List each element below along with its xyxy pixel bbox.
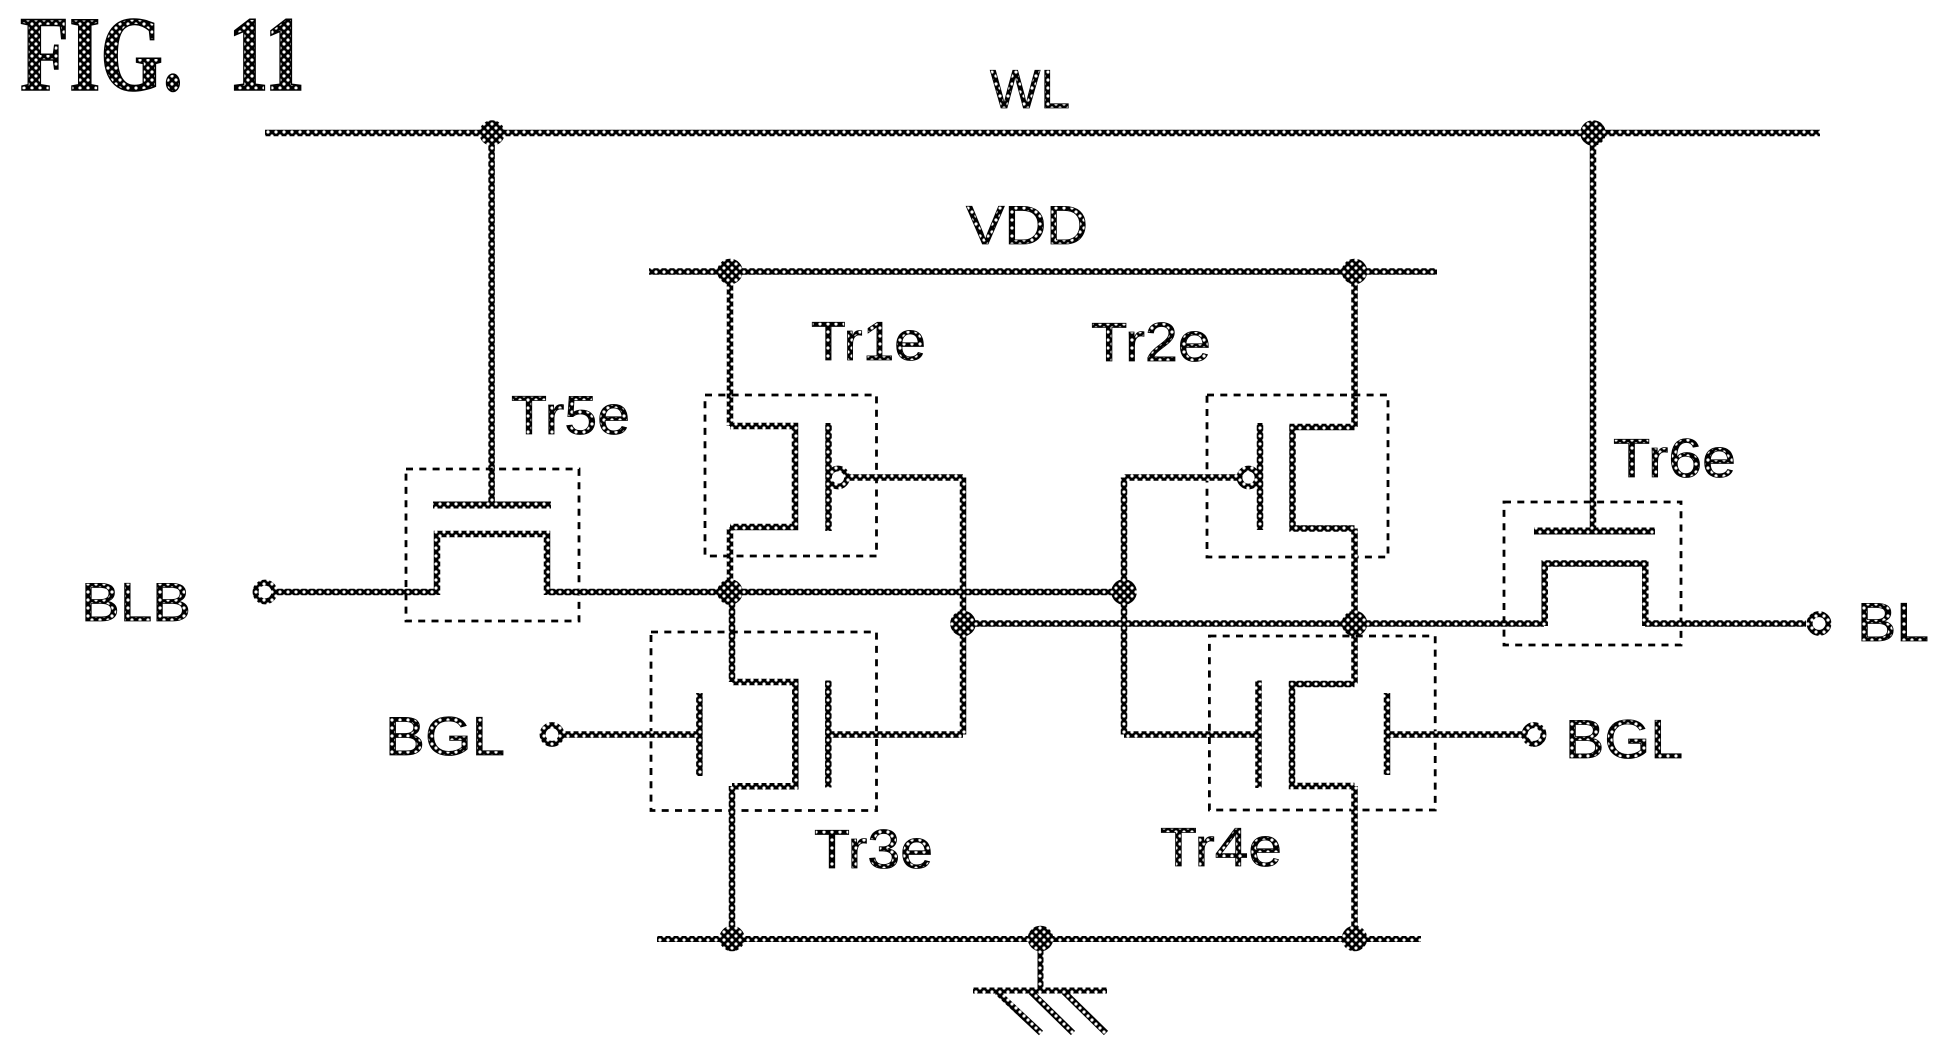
wire Tr4e source to VSS	[1351, 786, 1358, 939]
wire WL to Tr5e gate	[488, 133, 495, 505]
transistor Tr2e	[1207, 395, 1388, 557]
junction WL / Tr6e gate	[1580, 120, 1606, 146]
wire VDD to Tr1e source	[727, 272, 734, 427]
wire node QB (upper storage line)	[547, 589, 1124, 596]
junction VDD / Tr2e source	[1342, 259, 1368, 285]
svg-text:Tr6e: Tr6e	[1613, 427, 1736, 489]
wire VDD	[649, 268, 1437, 275]
wire Tr1e drain to node QB	[727, 527, 734, 592]
wire Tr1e gate lead	[849, 474, 963, 481]
transistor Tr3e	[651, 632, 877, 811]
junction VSS / Tr4e source	[1342, 926, 1368, 952]
junction Q / Tr2e drain	[1342, 611, 1368, 637]
transistor Tr1e	[705, 395, 877, 556]
wire Tr4e front gate lead	[1124, 731, 1258, 738]
terminal BLB	[256, 583, 275, 602]
ground	[973, 939, 1107, 1034]
svg-text:Tr4e: Tr4e	[1160, 816, 1282, 878]
wire WL to Tr6e gate	[1590, 133, 1597, 531]
svg-text:BGL: BGL	[1565, 708, 1683, 770]
wire Tr3e front gate lead	[830, 731, 963, 738]
terminal BL	[1810, 614, 1829, 633]
svg-text:BLB: BLB	[81, 571, 191, 633]
wire Tr3e source to VSS	[729, 786, 736, 939]
wire Tr6e to terminal BL	[1645, 620, 1806, 627]
junction VSS / Tr3e source	[719, 926, 745, 952]
wire node QB to Tr3e drain	[729, 592, 736, 682]
terminal BGL right	[1525, 725, 1544, 744]
wire BLB to Tr5e	[276, 589, 437, 596]
wire node Q vertical branch (Tr1e gate / Tr3e front gate)	[960, 478, 967, 735]
wire WL	[265, 130, 1820, 137]
wire Tr2e drain to node Q	[1351, 529, 1358, 624]
svg-text:Tr2e: Tr2e	[1091, 311, 1211, 373]
wire node Q (lower storage line)	[963, 620, 1544, 627]
transistor Tr5e	[406, 469, 579, 621]
junction QB / Tr2e gate branch	[1111, 579, 1137, 605]
wire node QB vertical branch (Tr2e gate / Tr4e front gate)	[1121, 478, 1128, 735]
svg-text:WL: WL	[990, 58, 1070, 120]
transistor Tr4e	[1209, 636, 1435, 810]
junction VDD / Tr1e source	[717, 259, 743, 285]
wire VSS	[657, 936, 1421, 942]
svg-text:VDD: VDD	[966, 194, 1088, 256]
wire BGL left lead	[563, 731, 697, 738]
svg-text:Tr3e: Tr3e	[814, 818, 933, 880]
wire node Q to Tr4e drain	[1351, 624, 1358, 685]
svg-text:Tr1e: Tr1e	[811, 310, 926, 372]
svg-text:FIG.: FIG.	[20, 0, 183, 114]
junction QB / Tr1e drain	[717, 579, 743, 605]
svg-text:11: 11	[228, 0, 305, 114]
wire Tr2e gate lead	[1124, 474, 1238, 481]
svg-text:Tr5e: Tr5e	[511, 384, 630, 446]
svg-text:BL: BL	[1857, 591, 1929, 653]
svg-text:BGL: BGL	[385, 705, 505, 767]
wire VDD to Tr2e source	[1351, 272, 1358, 428]
junction WL / Tr5e gate	[479, 120, 505, 146]
junction VSS / ground	[1028, 926, 1054, 952]
junction Q / gate branch	[950, 611, 976, 637]
transistor Tr6e	[1504, 502, 1681, 645]
terminal BGL left	[543, 725, 562, 744]
wire BGL right lead	[1390, 731, 1523, 738]
